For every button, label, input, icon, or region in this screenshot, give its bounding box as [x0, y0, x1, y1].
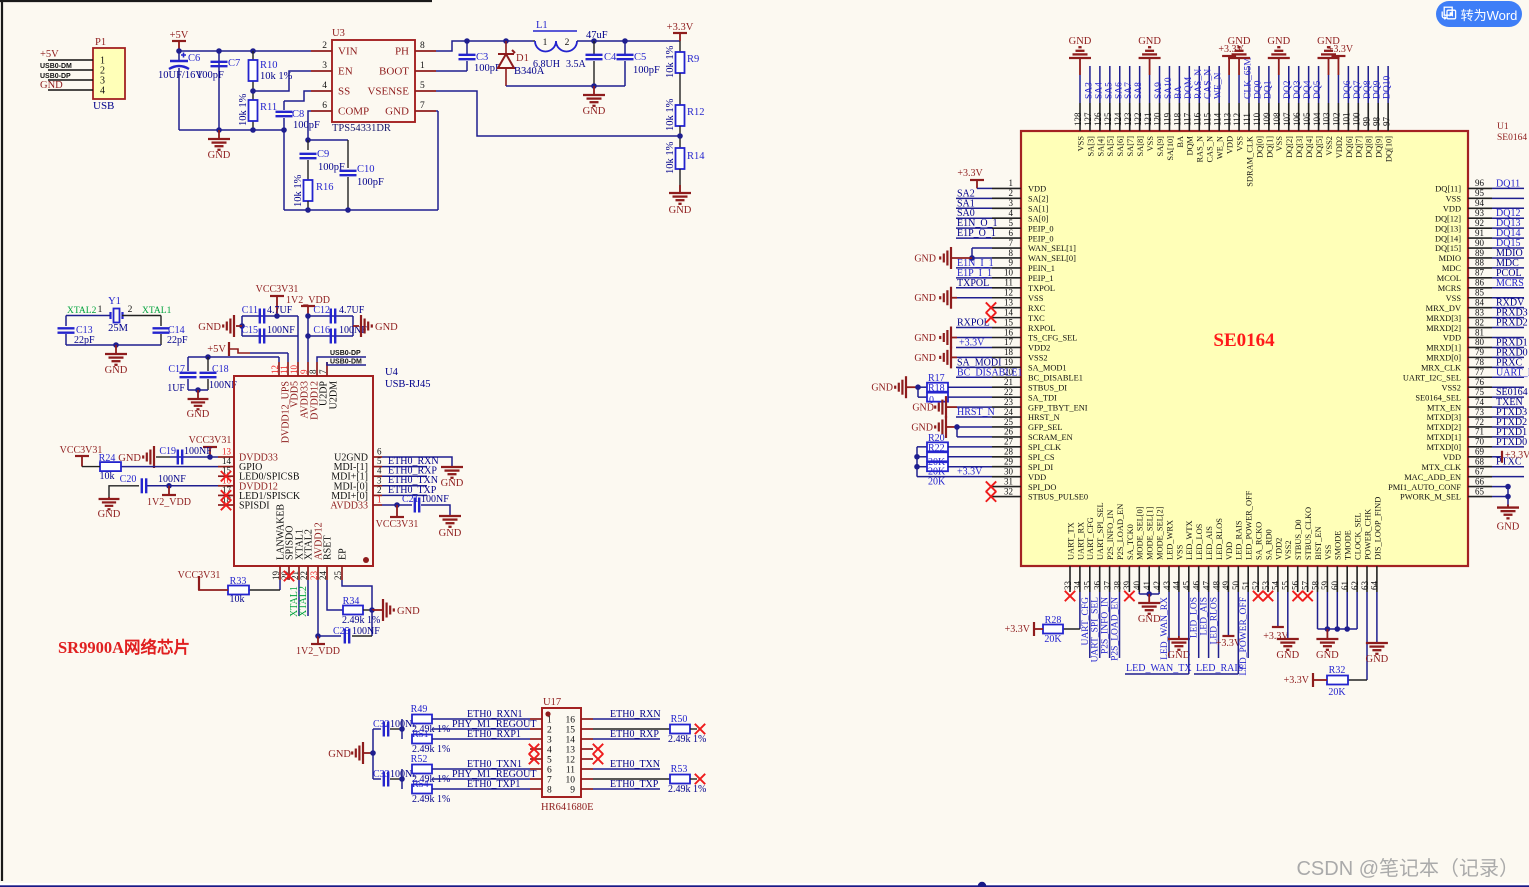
svg-text:CAS_N: CAS_N: [1204, 69, 1214, 99]
svg-text:3: 3: [1009, 198, 1014, 208]
svg-text:10k 1%: 10k 1%: [260, 71, 293, 82]
ground on U1 pin 121: [1149, 75, 1151, 103]
svg-text:+3.3V: +3.3V: [959, 337, 985, 348]
svg-text:111: 111: [1242, 113, 1252, 126]
svg-text:BOOT: BOOT: [379, 66, 409, 78]
ground symbol left of C11: [236, 325, 242, 327]
capacitor C5 100pF: [624, 41, 626, 54]
svg-text:VSS2: VSS2: [1028, 354, 1048, 363]
svg-text:USB-RJ45: USB-RJ45: [385, 379, 431, 390]
svg-text:2.49k 1%: 2.49k 1%: [668, 784, 706, 795]
svg-text:12: 12: [1004, 288, 1013, 298]
svg-text:104: 104: [1312, 112, 1322, 126]
svg-text:16: 16: [1004, 327, 1014, 337]
svg-text:PEIP_0: PEIP_0: [1028, 224, 1054, 233]
svg-text:108: 108: [1272, 112, 1282, 126]
node LED_AIS on U1 pin 47: [1208, 592, 1210, 658]
svg-text:RXC: RXC: [1028, 304, 1046, 313]
node DQ5 on U1 pin 104: [1318, 66, 1320, 103]
svg-text:6: 6: [322, 101, 327, 111]
svg-text:WE_N: WE_N: [1216, 136, 1225, 159]
svg-text:6.8UH: 6.8UH: [533, 59, 560, 70]
svg-text:20K: 20K: [1328, 687, 1346, 698]
svg-text:SA[4]: SA[4]: [1096, 136, 1105, 157]
svg-text:1: 1: [420, 61, 425, 71]
svg-text:DQ12: DQ12: [1496, 208, 1520, 219]
svg-text:DQ7: DQ7: [1353, 80, 1363, 99]
svg-text:GND: GND: [385, 106, 409, 118]
node ETH0_TXN1: [432, 768, 530, 770]
svg-text:RAS_N: RAS_N: [1194, 69, 1204, 99]
svg-text:128: 128: [1073, 112, 1083, 126]
ground on U1 pin 64: [1376, 592, 1378, 643]
svg-text:DQ[0]: DQ[0]: [1255, 136, 1264, 158]
svg-text:VIN: VIN: [338, 46, 358, 58]
ground on U1 pin 23: [946, 406, 957, 408]
svg-text:MTXD[1]: MTXD[1]: [1427, 433, 1462, 442]
U3 pin 3 EN: [311, 70, 332, 72]
ground on U1 pins 7 8: [972, 247, 992, 249]
svg-text:DQ[10]: DQ[10]: [1385, 136, 1394, 162]
no-connect X on U1 pin 14: [986, 312, 996, 322]
svg-text:45: 45: [1182, 581, 1192, 591]
svg-text:37: 37: [1102, 581, 1112, 591]
svg-text:30: 30: [1004, 466, 1014, 476]
svg-text:GND: GND: [914, 353, 936, 364]
svg-text:P2S_LOAD_EN: P2S_LOAD_EN: [1116, 504, 1125, 560]
svg-text:2: 2: [128, 305, 133, 315]
U1 left pin names and numbers: [992, 178, 1088, 502]
U4 pin 15 LED0/SPICSB: [218, 475, 234, 477]
svg-text:XTAL1: XTAL1: [142, 306, 172, 316]
svg-text:DQ11: DQ11: [1496, 178, 1520, 189]
svg-text:8: 8: [308, 369, 318, 374]
svg-text:+3.3V: +3.3V: [1328, 44, 1354, 55]
no-connect X on U1 pin 39: [1124, 591, 1134, 601]
svg-text:POWER_CHK: POWER_CHK: [1363, 509, 1372, 560]
svg-text:SA[0]: SA[0]: [1028, 214, 1049, 223]
wire pin13 rail: [170, 456, 218, 458]
svg-text:CLOCK_SEL: CLOCK_SEL: [1354, 513, 1363, 560]
U17 pin 14: [581, 738, 593, 740]
ground rail under C6 C7 R11: [179, 129, 284, 131]
svg-text:VSENSE: VSENSE: [367, 86, 409, 98]
svg-text:UART_CFG: UART_CFG: [1086, 517, 1095, 560]
svg-text:GND: GND: [1069, 36, 1092, 47]
node LED_WAN_RX on U1 pin 43: [1168, 592, 1170, 658]
U1 top pin names and numbers: [1073, 103, 1393, 187]
svg-text:95: 95: [1475, 188, 1485, 198]
svg-text:RAS_N: RAS_N: [1196, 136, 1205, 163]
svg-text:VSS: VSS: [1235, 136, 1244, 152]
ground on U1 pin 12: [951, 297, 957, 299]
node ETH0_RXN: [382, 466, 427, 468]
ground symbol under C20: [108, 497, 110, 499]
svg-text:ETH0_RXN: ETH0_RXN: [610, 709, 661, 720]
resistor R10 10k: [252, 51, 254, 130]
svg-text:54: 54: [1271, 581, 1281, 591]
svg-text:GND: GND: [871, 383, 893, 394]
svg-text:VSS: VSS: [1028, 294, 1044, 303]
svg-text:R9: R9: [687, 54, 699, 65]
wire decoupling rails left: [242, 315, 298, 317]
svg-text:LED_RLOS: LED_RLOS: [1215, 518, 1224, 560]
svg-text:MTXD[0]: MTXD[0]: [1427, 443, 1462, 452]
svg-text:DQ1: DQ1: [1263, 80, 1273, 99]
svg-text:120: 120: [1153, 112, 1163, 126]
CSDN watermark: [1296, 852, 1519, 881]
svg-text:1UF: 1UF: [167, 383, 185, 394]
svg-text:6: 6: [377, 447, 382, 457]
svg-text:C32: C32: [373, 719, 390, 730]
node ETH0_RXN right: [593, 718, 660, 720]
svg-text:GND: GND: [1138, 614, 1161, 625]
wire U2GND to ground: [382, 457, 452, 467]
node USB0-DP wire: [317, 357, 366, 362]
svg-text:VCC3V31: VCC3V31: [189, 435, 232, 446]
svg-text:SA[5]: SA[5]: [1106, 136, 1115, 157]
svg-text:SA[10]: SA[10]: [1166, 136, 1175, 161]
svg-text:XTAL2: XTAL2: [67, 306, 97, 316]
svg-text:R34: R34: [343, 596, 360, 607]
no-connect X on U1 pin 32: [986, 491, 996, 501]
svg-text:10: 10: [566, 776, 576, 786]
wire AVDD33 net: [382, 504, 412, 506]
svg-text:C19: C19: [159, 446, 176, 457]
svg-text:17: 17: [1004, 337, 1014, 347]
svg-text:8: 8: [1009, 248, 1014, 258]
svg-text:TXC: TXC: [1028, 314, 1045, 323]
svg-text:103: 103: [1322, 112, 1332, 126]
node ETH0_RXP: [382, 475, 427, 477]
svg-text:11: 11: [1004, 278, 1013, 288]
no-connect X on U1 pin 13: [986, 302, 996, 312]
svg-text:LED_AIS: LED_AIS: [1205, 526, 1214, 560]
svg-text:DQ[4]: DQ[4]: [1305, 136, 1314, 158]
svg-text:ETH0_RXP: ETH0_RXP: [610, 729, 659, 740]
U4 pin 17 LED1/SPISCK: [218, 494, 234, 496]
svg-text:2: 2: [322, 41, 327, 51]
svg-text:DQ[12]: DQ[12]: [1435, 214, 1461, 223]
U4 pin 20 SPISDO: [288, 566, 290, 580]
ground on U1 pin 128: [1079, 75, 1081, 103]
no-connect X on U4 pin 20: [284, 571, 294, 581]
U4 pin 21 XTAL1: [298, 566, 300, 580]
wire RSET to R34: [327, 580, 343, 610]
svg-text:PCOL: PCOL: [1496, 268, 1522, 279]
svg-text:USB0-DP: USB0-DP: [40, 73, 71, 80]
svg-text:EP: EP: [338, 548, 349, 560]
node DQ6 on U1 pin 101: [1347, 66, 1349, 103]
svg-text:21: 21: [1004, 377, 1013, 387]
svg-text:100NF: 100NF: [184, 446, 212, 457]
svg-text:4: 4: [547, 746, 552, 756]
svg-text:9: 9: [570, 786, 575, 796]
svg-text:MTX_EN: MTX_EN: [1427, 403, 1461, 412]
svg-text:65: 65: [1475, 486, 1485, 496]
svg-text:GND: GND: [1267, 36, 1290, 47]
svg-text:DQ[7]: DQ[7]: [1355, 136, 1364, 158]
capacitor C33 100NF: [373, 778, 381, 780]
svg-text:SA5: SA5: [1104, 82, 1114, 99]
U4 pin 11 VDD5: [287, 362, 289, 376]
svg-text:GND: GND: [911, 422, 933, 433]
svg-text:GND: GND: [328, 749, 351, 760]
svg-text:MODE_SEL[2]: MODE_SEL[2]: [1156, 506, 1165, 560]
svg-text:DQ[5]: DQ[5]: [1315, 136, 1324, 158]
svg-text:7: 7: [1009, 238, 1014, 248]
svg-text:SA[3]: SA[3]: [1086, 136, 1095, 157]
svg-text:DQ[9]: DQ[9]: [1375, 136, 1384, 158]
svg-text:U1: U1: [1497, 122, 1509, 132]
svg-text:83: 83: [1475, 307, 1485, 317]
svg-text:40: 40: [1132, 581, 1142, 591]
capacitor C8 100pF: [283, 101, 285, 110]
svg-text:VDD: VDD: [1225, 542, 1234, 560]
svg-text:97: 97: [1381, 117, 1391, 127]
U17 pin 4: [530, 748, 542, 750]
svg-text:STBUS_DI: STBUS_DI: [1028, 383, 1067, 392]
svg-text:U3: U3: [332, 28, 345, 39]
svg-text:C11: C11: [242, 305, 258, 316]
svg-text:MODE_SEL[1]: MODE_SEL[1]: [1146, 506, 1155, 560]
U17 pin 13: [581, 748, 593, 750]
node XTAL1 wire: [298, 580, 300, 616]
ground on U1 pin 112: [1238, 75, 1240, 103]
svg-text:U4: U4: [385, 367, 399, 378]
svg-text:47uF: 47uF: [586, 30, 608, 41]
no-connect X U17 pin 5: [529, 754, 539, 764]
svg-text:DQ[6]: DQ[6]: [1345, 136, 1354, 158]
svg-text:7: 7: [420, 101, 425, 111]
svg-text:10k: 10k: [230, 594, 245, 605]
U3 pin 2 VIN: [311, 50, 332, 52]
svg-text:1: 1: [98, 305, 103, 315]
svg-text:47: 47: [1201, 581, 1211, 591]
svg-text:126: 126: [1093, 112, 1103, 126]
capacitor C18 100NF: [207, 357, 209, 371]
svg-text:73: 73: [1475, 407, 1485, 417]
node E1N_I_1 on U1 pin 9: [956, 267, 992, 269]
node LED_POWER_OFF on U1 pin 51: [1247, 592, 1249, 658]
ground symbol GND input: [218, 130, 220, 139]
svg-text:28: 28: [1004, 447, 1014, 457]
svg-text:C16: C16: [313, 325, 330, 336]
svg-text:P1: P1: [95, 37, 106, 48]
svg-text:LED_WTX: LED_WTX: [1185, 520, 1194, 560]
U4 pin 7 U2DM: [326, 362, 328, 376]
node DQ7 on U1 pin 100: [1357, 66, 1359, 103]
svg-text:92: 92: [1475, 218, 1484, 228]
svg-text:USB0-DM: USB0-DM: [40, 63, 72, 70]
svg-text:PRXD0: PRXD0: [1496, 347, 1528, 358]
no-connect X on U1 pin 31: [986, 481, 996, 491]
svg-text:70: 70: [1475, 437, 1485, 447]
ground symbol crystal GND: [115, 345, 117, 354]
svg-text:PTXD1: PTXD1: [1496, 427, 1527, 438]
node DQ10 on U1 pin 97: [1387, 66, 1389, 103]
resistor R51 2.49k: [401, 729, 403, 739]
svg-text:49: 49: [1221, 581, 1231, 591]
ground on U1 pin 108: [1278, 75, 1280, 103]
svg-text:SE0164_SEL: SE0164_SEL: [1415, 393, 1461, 402]
svg-text:82: 82: [1475, 317, 1484, 327]
U1 right pin names and numbers: [1388, 178, 1492, 502]
svg-text:10: 10: [1004, 268, 1014, 278]
svg-text:36: 36: [1093, 581, 1103, 591]
wire pin16 rail: [147, 485, 218, 487]
svg-text:2: 2: [377, 485, 382, 495]
svg-text:+5V: +5V: [207, 344, 226, 355]
svg-text:62: 62: [1350, 581, 1360, 590]
node SA_MODI on U1 pin 19: [956, 366, 992, 368]
ground on U1 pin 16: [951, 337, 957, 339]
ground symbol left of C19: [156, 456, 170, 458]
svg-text:4: 4: [377, 466, 382, 476]
node DQ0 on U1 pin 110: [1258, 66, 1260, 103]
node SA8 on U1 pin 122: [1139, 66, 1141, 103]
svg-text:PTXD0: PTXD0: [1496, 437, 1527, 448]
svg-text:66: 66: [1475, 476, 1485, 486]
svg-text:SA[1]: SA[1]: [1028, 204, 1049, 213]
svg-text:C5: C5: [634, 52, 646, 63]
wire decoupling rails right: [308, 315, 353, 317]
svg-text:107: 107: [1282, 112, 1292, 126]
svg-text:P2S_INFO_IN: P2S_INFO_IN: [1101, 597, 1111, 654]
svg-text:C20: C20: [120, 474, 137, 485]
capacitor C11 4.7UF: [260, 309, 264, 324]
node ETH0_RXP right: [593, 738, 660, 740]
node ETH0_TXP1: [432, 788, 530, 790]
U3 pin 7 GND: [415, 110, 436, 112]
svg-text:LED_LOS: LED_LOS: [1190, 597, 1200, 638]
capacitor C32 100NF: [373, 728, 381, 730]
svg-text:VCC3V31: VCC3V31: [256, 284, 299, 295]
svg-text:WAN_SEL[1]: WAN_SEL[1]: [1028, 244, 1076, 253]
svg-text:D1: D1: [516, 53, 529, 64]
svg-text:GND: GND: [397, 606, 420, 617]
no-connect X on U1 pin 33: [1065, 591, 1075, 601]
ground symbol right of C12: [353, 325, 359, 327]
no-connect X on U4 pin 18: [221, 500, 231, 510]
svg-text:C8: C8: [292, 109, 304, 120]
svg-text:MTXD[2]: MTXD[2]: [1427, 423, 1462, 432]
sheet border left: [1, 0, 3, 881]
svg-text:127: 127: [1083, 112, 1093, 126]
svg-text:VSS2: VSS2: [1284, 540, 1293, 560]
svg-text:SA[8]: SA[8]: [1136, 136, 1145, 157]
svg-text:50: 50: [1231, 581, 1241, 591]
U4 pin 4 MDI+[1]: [373, 475, 382, 477]
svg-text:SA3: SA3: [1084, 82, 1094, 99]
resistor R33 10k: [279, 580, 281, 590]
svg-text:85: 85: [1475, 288, 1485, 298]
svg-text:VDD2: VDD2: [1335, 136, 1344, 158]
node ETH0_RXN1: [432, 718, 530, 720]
node SA0 on U1 pin 4: [956, 217, 992, 219]
U1 right side wires: [1492, 188, 1524, 496]
svg-text:15: 15: [1004, 317, 1014, 327]
svg-text:R50: R50: [671, 714, 688, 725]
svg-text:TPS54331DR: TPS54331DR: [332, 123, 391, 134]
svg-text:34: 34: [1073, 581, 1083, 591]
svg-text:88: 88: [1475, 258, 1485, 268]
svg-text:WE_N: WE_N: [1214, 72, 1224, 99]
svg-text:GND: GND: [914, 333, 936, 344]
wire U4 pin9 to 1V2 rail: [307, 336, 309, 362]
svg-text:VSS: VSS: [1146, 136, 1155, 152]
connector P1: [93, 48, 125, 99]
svg-text:106: 106: [1292, 112, 1302, 126]
svg-text:4: 4: [1009, 208, 1014, 218]
svg-text:STBUS_CLKO: STBUS_CLKO: [1304, 507, 1313, 560]
svg-text:10k 1%: 10k 1%: [665, 98, 676, 131]
svg-text:SA7: SA7: [1124, 82, 1134, 99]
svg-text:101: 101: [1342, 113, 1352, 127]
resistor R28 20K on U1 pin 34: [1079, 592, 1081, 629]
svg-text:2.49k 1%: 2.49k 1%: [668, 734, 706, 745]
svg-text:1: 1: [547, 716, 552, 726]
wire BOOT to C3: [436, 70, 467, 72]
svg-text:15: 15: [566, 726, 576, 736]
node DQ3 on U1 pin 106: [1298, 66, 1300, 103]
svg-text:80: 80: [1475, 337, 1485, 347]
no-connect X on U1 pin 56: [1293, 591, 1303, 601]
no-connect X on U1 pin 53: [1263, 591, 1273, 601]
svg-text:UART_SPI_SEL: UART_SPI_SEL: [1091, 597, 1101, 663]
no-connect X U17 pin 12: [593, 754, 603, 764]
svg-text:13: 13: [1004, 297, 1014, 307]
resistor R16 10k: [304, 180, 313, 201]
svg-text:100pF: 100pF: [633, 65, 660, 76]
svg-text:SA_RCKO: SA_RCKO: [1255, 522, 1264, 560]
svg-text:L1: L1: [536, 20, 548, 31]
node RXPOL on U1 pin 15: [956, 327, 992, 329]
svg-text:DQ2: DQ2: [1283, 80, 1293, 99]
svg-text:DQ3: DQ3: [1293, 80, 1303, 99]
resistor R53 2.49k with no-connect: [593, 778, 670, 780]
wire C17 C18 to pin 12: [188, 356, 279, 358]
node E1P_I_1 on U1 pin 10: [956, 277, 992, 279]
svg-text:P2S_INFO_IN: P2S_INFO_IN: [1106, 510, 1115, 560]
svg-text:DQ[2]: DQ[2]: [1285, 136, 1294, 158]
svg-text:33: 33: [1063, 581, 1073, 591]
svg-text:1: 1: [543, 38, 548, 48]
svg-text:ETH0_TXP: ETH0_TXP: [610, 779, 659, 790]
svg-text:MRXD[1]: MRXD[1]: [1426, 344, 1461, 353]
svg-text:110: 110: [1252, 112, 1262, 126]
svg-text:2: 2: [547, 726, 552, 736]
node ETH0_TXN: [382, 485, 427, 487]
U4 pin 8 U2DP: [316, 362, 318, 376]
svg-text:VDD: VDD: [1028, 473, 1046, 482]
capacitor C20 100NF: [142, 478, 146, 493]
U3 pin 8 PH: [415, 50, 436, 52]
power symbol 1V2_VDD bottom: [317, 636, 319, 644]
svg-text:29: 29: [1004, 457, 1014, 467]
svg-text:35: 35: [1083, 581, 1093, 591]
svg-text:121: 121: [1143, 113, 1153, 127]
svg-text:38: 38: [1112, 581, 1122, 591]
svg-text:GFP_TBYT_ENI: GFP_TBYT_ENI: [1028, 403, 1088, 412]
svg-text:C10: C10: [357, 164, 375, 175]
svg-text:GND: GND: [98, 509, 121, 520]
U17 pin 15: [581, 728, 593, 730]
wire C17 C18 bottom: [188, 389, 208, 391]
svg-text:VSS: VSS: [1446, 195, 1462, 204]
svg-text:GND: GND: [1276, 650, 1299, 661]
svg-text:4: 4: [100, 86, 105, 97]
